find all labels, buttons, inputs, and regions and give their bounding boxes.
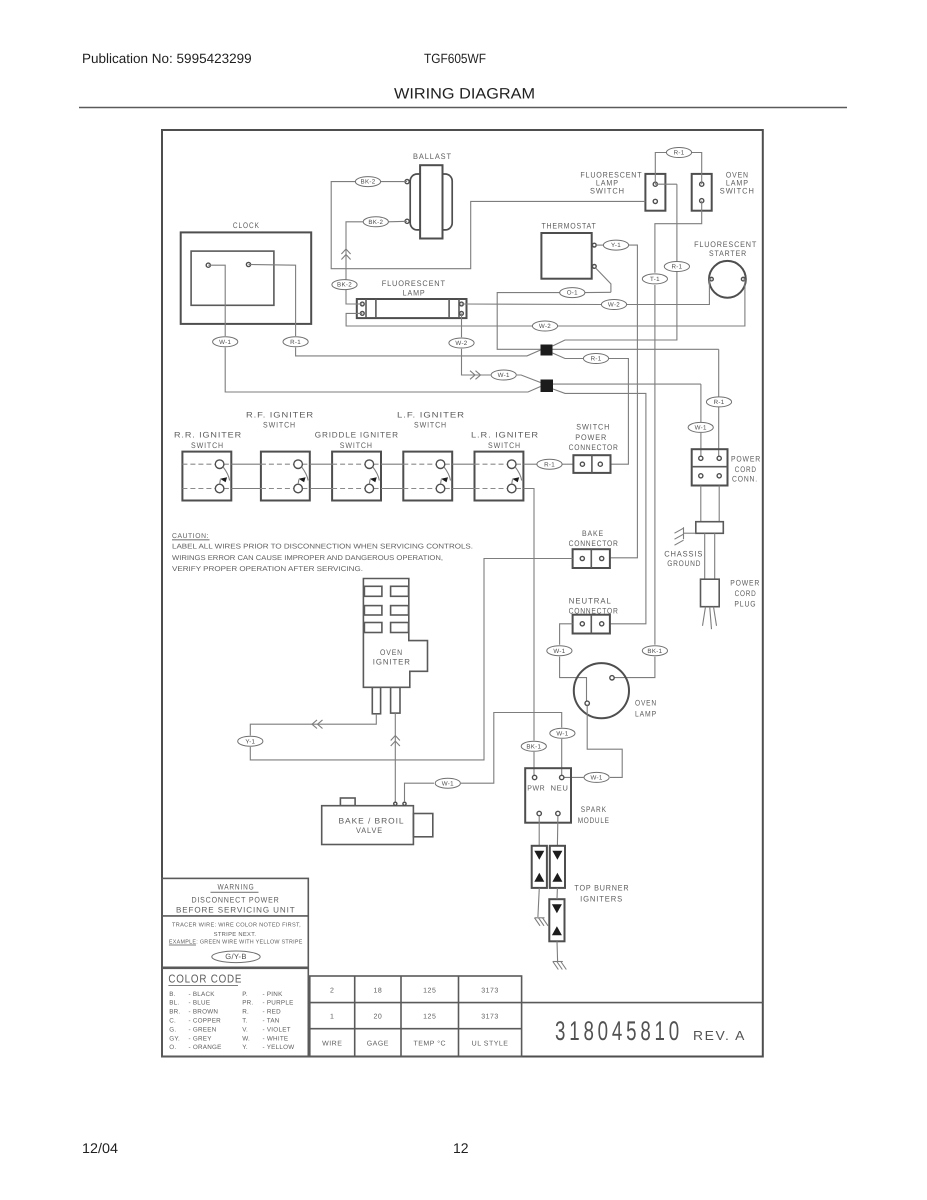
- svg-text:- BLUE: - BLUE: [189, 1000, 211, 1007]
- rr switch lever arrow: [223, 467, 230, 481]
- oval BK-1 right of oven lamp: [642, 646, 667, 656]
- svg-text:BK-2: BK-2: [368, 219, 383, 226]
- oven igniter slots: [364, 586, 382, 596]
- chevron up on valve wire: [391, 736, 400, 741]
- power cord conn box: [692, 449, 728, 485]
- thermostat terminal bottom: [592, 265, 596, 269]
- oval W-1 spark column: [550, 728, 575, 738]
- svg-text:UL STYLE: UL STYLE: [472, 1041, 509, 1048]
- wires from power cord conn down to strain relief: [700, 486, 702, 522]
- oval W-2 mid: [532, 321, 557, 331]
- svg-text:POWER: POWER: [731, 455, 761, 464]
- wire BK-2 loop: fluor switch bottom terminal to ballast top terminal: [331, 182, 645, 269]
- bake/broil valve body: [322, 806, 414, 845]
- wire W-1: valve right terminal to spark module NEU: [405, 783, 435, 802]
- svg-text:COLOR CODE: COLOR CODE: [168, 974, 242, 986]
- oven switch terminal bottom: [700, 199, 704, 203]
- oven igniter outline: [363, 579, 427, 688]
- oval R-1 top: [666, 148, 691, 158]
- svg-text:CORD: CORD: [735, 589, 757, 598]
- lamp terminal right top: [460, 302, 464, 306]
- svg-text:- BLACK: - BLACK: [189, 991, 216, 998]
- svg-text:125: 125: [423, 988, 436, 995]
- oval R-1 power cord column: [706, 397, 731, 407]
- power cord plug prongs: [703, 607, 706, 626]
- fluorescent lamp end cap lines: [365, 299, 367, 318]
- svg-text:SWITCH: SWITCH: [590, 187, 625, 196]
- svg-text:R.: R.: [242, 1009, 249, 1016]
- chassis ground wire: [684, 532, 696, 534]
- svg-text:POWER: POWER: [575, 433, 607, 442]
- svg-text:3173: 3173: [481, 1014, 499, 1021]
- lamp terminal left bottom: [360, 312, 364, 316]
- wires from strain relief to plug: [704, 533, 706, 579]
- svg-text:PLUG: PLUG: [734, 599, 756, 608]
- wire BK-1/PWR: L.R. switch lower terminal down to spark module PWR: [523, 489, 534, 741]
- svg-text:FLUORESCENT: FLUORESCENT: [694, 240, 757, 249]
- svg-text:DISCONNECT POWER: DISCONNECT POWER: [192, 896, 280, 905]
- oval BK-2 mid: [363, 217, 388, 227]
- svg-text:BK-1: BK-1: [526, 743, 541, 750]
- oven lamp circle: [574, 663, 629, 718]
- svg-text:GROUND: GROUND: [667, 559, 701, 568]
- wire R-1: fluor switch top terminal down to junction square 1: [655, 183, 677, 185]
- svg-text:Publication No: 5995423299: Publication No: 5995423299: [82, 51, 252, 66]
- svg-text:IGNITERS: IGNITERS: [580, 895, 623, 904]
- part number divider line: [522, 1002, 763, 1004]
- oval O-1: [560, 288, 585, 298]
- svg-text:- VIOLET: - VIOLET: [263, 1026, 291, 1033]
- bake connector box: [573, 549, 610, 568]
- starter terminal right: [741, 277, 745, 281]
- rr switch terminal upper: [215, 460, 224, 469]
- neutral connector terminal left: [580, 622, 584, 626]
- svg-text:O.: O.: [169, 1044, 176, 1051]
- lr switch terminal upper: [507, 460, 516, 469]
- svg-text:2: 2: [330, 988, 334, 995]
- svg-text:CONN.: CONN.: [732, 475, 758, 484]
- thermostat switch lever: [595, 268, 611, 293]
- svg-text:REV. A: REV. A: [693, 1028, 746, 1043]
- lr switch lever arrow: [515, 467, 522, 481]
- oval R-1 on starter column: [664, 262, 689, 272]
- lr switch terminal lower: [507, 484, 516, 493]
- svg-text:GRIDDLE IGNITER: GRIDDLE IGNITER: [315, 431, 399, 440]
- spark module bottom terminals: [537, 811, 541, 815]
- lf switch dashed contact lines: [403, 463, 436, 465]
- svg-text:12/04: 12/04: [82, 1140, 118, 1156]
- wire from square2 right to power cord conn left terminal via W-1 oval: [553, 383, 701, 385]
- svg-text:W-1: W-1: [442, 780, 454, 787]
- svg-text:- BROWN: - BROWN: [189, 1009, 219, 1016]
- rr switch terminal lower: [215, 484, 224, 493]
- thermostat terminal top: [592, 243, 596, 247]
- oven igniter prong left: [372, 687, 380, 714]
- griddle switch lever arrow: [373, 467, 380, 481]
- wire from square2 lower-right to neutral connector right: [553, 389, 646, 624]
- svg-text:POWER: POWER: [730, 578, 760, 587]
- ballast terminal bottom: [405, 219, 409, 223]
- svg-text:- RED: - RED: [263, 1009, 282, 1016]
- wire Y-1: thermostat top terminal to bake connector right: [596, 244, 603, 246]
- svg-text:W-1: W-1: [498, 372, 510, 379]
- svg-text:IGNITER: IGNITER: [373, 658, 411, 667]
- bake/broil valve top-left tab: [340, 798, 355, 806]
- svg-text:R-1: R-1: [290, 339, 301, 346]
- bake connector terminal right: [600, 556, 604, 560]
- ground symbol burner 3: [553, 961, 563, 963]
- oval W-1 neutral column: [547, 646, 572, 656]
- svg-text:R.R. IGNITER: R.R. IGNITER: [174, 431, 242, 440]
- svg-text:BALLAST: BALLAST: [413, 152, 452, 161]
- svg-text:WIRE: WIRE: [322, 1041, 342, 1048]
- wire spark to igniter 2: [556, 816, 559, 846]
- svg-text:- TAN: - TAN: [263, 1018, 280, 1025]
- oven lamp terminal lower: [585, 701, 589, 705]
- wire from square1 lower-right through R-1 oval to switch power connector: [553, 353, 584, 359]
- oval T-1: [642, 274, 667, 284]
- oval BK-2 lower: [332, 280, 357, 290]
- lf igniter switch box: [403, 452, 452, 501]
- lf switch lever arrow: [444, 467, 451, 481]
- rf igniter switch box: [261, 452, 310, 501]
- oval R-1 switch row: [537, 459, 562, 469]
- svg-text:OVEN: OVEN: [380, 648, 403, 657]
- wire from square1 right to power cord conn right terminal via R-1 oval: [553, 348, 719, 350]
- oven igniter prong right: [391, 687, 400, 713]
- svg-text:W-1: W-1: [695, 425, 707, 432]
- top burner igniter 1: [532, 846, 547, 888]
- svg-text:R-1: R-1: [674, 150, 685, 157]
- oval W-1 near square2: [491, 370, 516, 380]
- top burner igniter 2: [550, 846, 565, 888]
- svg-text:BR.: BR.: [169, 1009, 180, 1016]
- svg-text:O-1: O-1: [567, 290, 578, 297]
- clock terminal left: [206, 263, 210, 267]
- griddle switch terminal upper: [365, 460, 374, 469]
- oven lamp switch box: [692, 174, 712, 211]
- svg-text:- WHITE: - WHITE: [263, 1035, 289, 1042]
- svg-text:R-1: R-1: [544, 461, 555, 468]
- oval BK-1 spark column: [521, 741, 546, 751]
- svg-text:W-2: W-2: [608, 302, 620, 309]
- lf switch terminal lower: [436, 484, 445, 493]
- wire: oven igniter right prong to bake/broil valve left terminal: [394, 713, 396, 802]
- svg-text:Y-1: Y-1: [245, 738, 255, 745]
- header rule: [79, 107, 847, 109]
- wire gauge table: [310, 976, 522, 1057]
- svg-text:WIRING DIAGRAM: WIRING DIAGRAM: [394, 86, 535, 103]
- svg-text:TRACER WIRE: WIRE COLOR NOTED: TRACER WIRE: WIRE COLOR NOTED FIRST,: [172, 922, 301, 929]
- oval Y-1 thermostat: [603, 240, 628, 250]
- strain relief block: [696, 522, 724, 534]
- wire: oven lamp lower terminal to spark module NEU via W-1 oval: [587, 706, 622, 778]
- oval W-2 near thermostat: [601, 300, 626, 310]
- svg-text:PR.: PR.: [242, 1000, 253, 1007]
- svg-text:SWITCH: SWITCH: [414, 421, 447, 430]
- lamp terminal left top: [360, 302, 364, 306]
- svg-text:BEFORE SERVICING UNIT: BEFORE SERVICING UNIT: [176, 906, 296, 915]
- svg-text:L.R. IGNITER: L.R. IGNITER: [471, 431, 539, 440]
- svg-text:BAKE / BROIL: BAKE / BROIL: [339, 817, 405, 826]
- svg-text:W-1: W-1: [553, 648, 565, 655]
- svg-text:LAMP: LAMP: [635, 710, 657, 719]
- svg-text:CONNECTOR: CONNECTOR: [569, 443, 619, 452]
- svg-text:CORD: CORD: [735, 465, 757, 474]
- oval Y-1 igniter: [238, 736, 263, 746]
- rf switch lever arrow: [302, 467, 309, 481]
- svg-text:BK-2: BK-2: [361, 179, 376, 186]
- starter terminal left: [710, 277, 714, 281]
- svg-text:CAUTION:: CAUTION:: [172, 533, 209, 540]
- svg-text:T-1: T-1: [650, 276, 660, 283]
- svg-text:SWITCH: SWITCH: [720, 187, 755, 196]
- wire W-2/W-1: lamp right bottom terminal down through W-2 oval then right to square2: [461, 313, 463, 337]
- svg-text:- ORANGE: - ORANGE: [189, 1044, 222, 1051]
- bake connector terminal left: [580, 556, 584, 560]
- svg-text:R.F. IGNITER: R.F. IGNITER: [246, 410, 314, 419]
- svg-text:SWITCH: SWITCH: [263, 421, 296, 430]
- svg-text:L.F. IGNITER: L.F. IGNITER: [397, 410, 465, 419]
- ballast terminal top: [405, 180, 409, 184]
- svg-text:C.: C.: [169, 1018, 176, 1025]
- wire segments between igniter switch boxes upper: [231, 463, 261, 465]
- svg-text:- COPPER: - COPPER: [189, 1018, 222, 1025]
- rr switch dashed contact lines: [182, 463, 215, 465]
- svg-text:B.: B.: [169, 991, 175, 998]
- svg-text:SWITCH: SWITCH: [191, 441, 224, 450]
- svg-text:W-2: W-2: [539, 323, 551, 330]
- svg-text:20: 20: [373, 1014, 382, 1021]
- svg-text:BK-1: BK-1: [647, 648, 662, 655]
- wire igniter1 to ground: [538, 888, 539, 917]
- rf switch terminal lower: [294, 484, 303, 493]
- svg-text:THERMOSTAT: THERMOSTAT: [542, 222, 597, 231]
- wire W-1: neutral connector left to oven lamp lower terminal: [560, 624, 573, 645]
- wire igniter3 to ground: [556, 941, 559, 961]
- svg-text:TEMP °C: TEMP °C: [413, 1041, 446, 1048]
- lf switch terminal upper: [436, 460, 445, 469]
- svg-text:BAKE: BAKE: [582, 529, 604, 538]
- svg-text:P.: P.: [242, 991, 248, 998]
- svg-text:BK-2: BK-2: [337, 282, 352, 289]
- svg-text:BL.: BL.: [169, 1000, 179, 1007]
- chevron left on Y-1 wire: [312, 720, 317, 729]
- svg-text:OVEN: OVEN: [635, 699, 657, 708]
- svg-text:W-1: W-1: [556, 730, 568, 737]
- wire T-1/BK-1: oven lamp switch bottom to oven lamp top terminal: [655, 201, 702, 273]
- fluor switch terminal bottom: [653, 199, 657, 203]
- fluor switch terminal top: [653, 182, 657, 186]
- svg-text:SWITCH: SWITCH: [576, 423, 610, 432]
- wire from L.R. switch upper to switch power connector via R-1 oval: [523, 463, 536, 465]
- oven lamp terminal upper: [610, 676, 614, 680]
- svg-text:SWITCH: SWITCH: [488, 441, 521, 450]
- svg-text:WARNING: WARNING: [218, 883, 255, 892]
- svg-text:18: 18: [373, 988, 382, 995]
- rf switch dashed contact lines: [261, 463, 294, 465]
- svg-text:CHASSIS: CHASSIS: [664, 550, 703, 559]
- clock terminal right: [246, 262, 250, 266]
- fluorescent lamp body: [357, 299, 467, 318]
- svg-text:12: 12: [453, 1140, 469, 1156]
- rr igniter switch box: [182, 452, 231, 501]
- svg-text:- GREEN: - GREEN: [189, 1026, 217, 1033]
- switch power connector terminal left: [580, 462, 584, 466]
- griddle switch terminal lower: [365, 484, 374, 493]
- svg-text:TGF605WF: TGF605WF: [424, 51, 486, 66]
- ballast body: [420, 165, 442, 238]
- oval W-1 spark NEU: [584, 772, 609, 782]
- chevron up on BK-2 wire: [341, 249, 350, 254]
- svg-text:LAMP: LAMP: [403, 289, 426, 298]
- oval R-1 clock: [283, 337, 308, 347]
- clock outer box: [181, 232, 312, 324]
- svg-text:W-2: W-2: [455, 340, 467, 347]
- svg-text:T.: T.: [242, 1018, 247, 1025]
- wire R-1: fluorescent lamp switch top to oven lamp switch top via R-1 oval: [655, 153, 666, 185]
- svg-text:SPARK: SPARK: [581, 805, 607, 814]
- svg-text:PWR: PWR: [527, 784, 545, 793]
- svg-text:R-1: R-1: [591, 356, 602, 363]
- oval G/Y-B: [212, 951, 260, 963]
- svg-text:GAGE: GAGE: [367, 1041, 389, 1048]
- svg-text:Y-1: Y-1: [611, 242, 621, 249]
- wire spark to igniter 1: [538, 816, 540, 846]
- lamp terminal right bottom: [460, 312, 464, 316]
- thermostat box: [541, 233, 591, 279]
- oval BK-2 upper: [355, 177, 380, 187]
- clock inner box: [191, 251, 274, 305]
- svg-text:- PURPLE: - PURPLE: [263, 1000, 294, 1007]
- svg-text:VERIFY PROPER OPERATION AFTER: VERIFY PROPER OPERATION AFTER SERVICING.: [172, 566, 363, 573]
- rf switch terminal upper: [294, 460, 303, 469]
- switch power connector box: [573, 455, 610, 473]
- power cord plug box: [701, 579, 720, 607]
- ballast outer rounded frame: [410, 174, 452, 230]
- wire Y-1: oven igniter left prong to bake connector left: [250, 714, 376, 736]
- oven switch terminal top: [700, 182, 704, 186]
- svg-text:CLOCK: CLOCK: [233, 221, 260, 230]
- svg-text:TOP BURNER: TOP BURNER: [574, 884, 629, 893]
- fluorescent lamp switch box: [645, 174, 665, 211]
- svg-text:NEUTRAL: NEUTRAL: [569, 596, 612, 605]
- bake/broil valve right tab: [413, 814, 432, 837]
- svg-text:- PINK: - PINK: [263, 991, 284, 998]
- svg-text:- YELLOW: - YELLOW: [263, 1044, 295, 1051]
- svg-text:VALVE: VALVE: [356, 826, 383, 835]
- fluorescent starter circle: [709, 261, 746, 298]
- warning box: [162, 878, 308, 1056]
- wire O-1: thermostat lever to vertical into junction square 1: [585, 291, 611, 293]
- svg-text:R-1: R-1: [714, 399, 725, 406]
- junction square 2: [541, 380, 554, 393]
- svg-text:STRIPE NEXT.: STRIPE NEXT.: [214, 931, 257, 938]
- oval W-1 power cord column: [688, 422, 713, 432]
- oval R-1 square1: [583, 354, 608, 364]
- svg-text:W-1: W-1: [219, 339, 231, 346]
- wire W-1 from clock left terminal to square2: [208, 265, 225, 336]
- lr switch dashed contact lines: [475, 463, 508, 465]
- chevron right on W-1 wire: [470, 371, 475, 380]
- svg-text:NEU: NEU: [551, 784, 569, 793]
- bake/broil valve terminals: [394, 802, 397, 805]
- oval W-1 valve: [435, 778, 460, 788]
- power cord conn terminals: [699, 456, 703, 460]
- oval W-1 clock: [213, 337, 238, 347]
- junction square 1: [541, 345, 553, 356]
- svg-text:FLUORESCENT: FLUORESCENT: [382, 279, 446, 288]
- wire BK-2: ballast bottom terminal to fluorescent lamp left top terminal: [388, 220, 407, 223]
- svg-text:W.: W.: [242, 1035, 250, 1042]
- wire W-2: lamp left bottom terminal to starter right terminal: [346, 313, 532, 326]
- spark module terminal PWR: [532, 775, 536, 779]
- svg-text:G/Y-B: G/Y-B: [225, 952, 246, 961]
- switch power connector terminal right: [598, 462, 602, 466]
- top burner igniter 3: [549, 899, 564, 941]
- wire igniter2 to igniter 3: [556, 888, 558, 899]
- neutral connector terminal right: [600, 622, 604, 626]
- warning box divider thick: [162, 967, 308, 970]
- svg-text:- GREY: - GREY: [189, 1035, 213, 1042]
- chassis ground symbol: [683, 527, 685, 539]
- svg-text:318045810: 318045810: [555, 1016, 683, 1046]
- wire R-1 from clock right terminal to square1: [249, 265, 296, 337]
- svg-text:WIRINGS ERROR CAN CAUSE IMPROP: WIRINGS ERROR CAN CAUSE IMPROPER AND DAN…: [172, 555, 443, 562]
- svg-text:125: 125: [423, 1014, 436, 1021]
- griddle switch dashed contact lines: [332, 463, 365, 465]
- svg-text:R-1: R-1: [671, 264, 682, 271]
- ground symbol burner 1: [535, 917, 545, 919]
- svg-text:Y.: Y.: [242, 1044, 248, 1051]
- wire W-2: lamp right top terminal to starter left terminal: [462, 303, 602, 306]
- svg-text:MODULE: MODULE: [578, 816, 610, 825]
- svg-text:1: 1: [330, 1014, 334, 1021]
- neutral connector box: [573, 615, 610, 634]
- svg-text:CONNECTOR: CONNECTOR: [569, 539, 619, 548]
- spark module terminal NEU: [560, 775, 564, 779]
- griddle igniter switch box: [332, 452, 381, 501]
- svg-text:V.: V.: [242, 1026, 248, 1033]
- spark module box: [525, 768, 571, 823]
- svg-text:LABEL ALL WIRES PRIOR TO DISCO: LABEL ALL WIRES PRIOR TO DISCONNECTION W…: [172, 544, 473, 551]
- svg-text:G.: G.: [169, 1026, 176, 1033]
- diagram border frame: [162, 130, 763, 1057]
- svg-text:W-1: W-1: [591, 775, 603, 782]
- svg-text:3173: 3173: [481, 988, 499, 995]
- svg-text:STARTER: STARTER: [709, 249, 747, 258]
- lr igniter switch box: [475, 452, 524, 501]
- svg-text:SWITCH: SWITCH: [340, 441, 373, 450]
- oval W-2 lamp column: [449, 338, 474, 348]
- svg-text:GY.: GY.: [169, 1035, 180, 1042]
